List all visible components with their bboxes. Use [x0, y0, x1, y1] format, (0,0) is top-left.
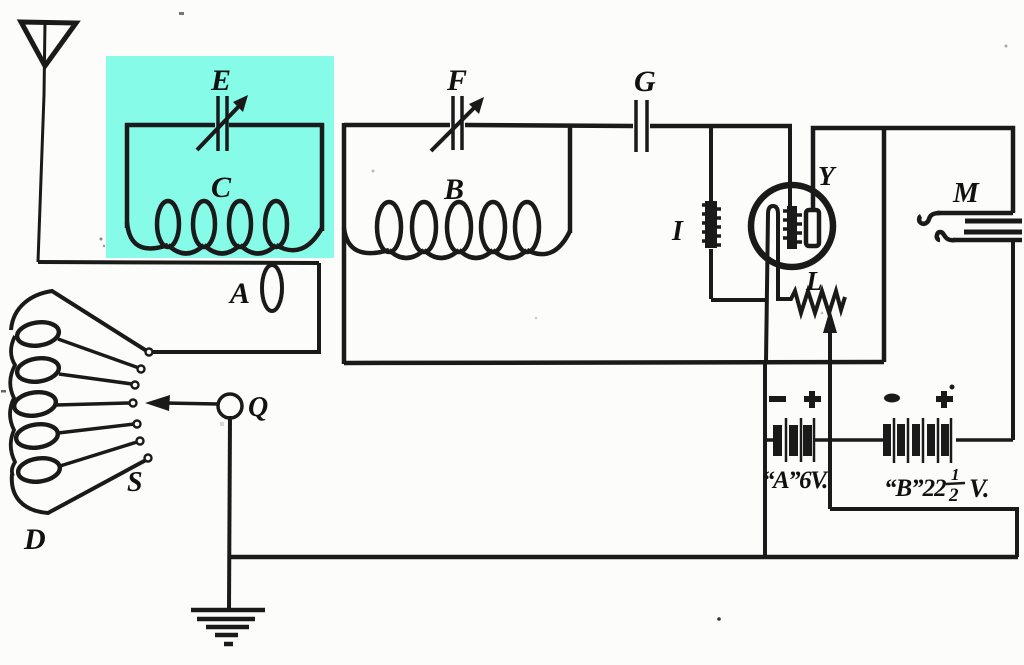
- tube grid: [783, 206, 802, 249]
- plate wire and top right rail: [813, 128, 1013, 213]
- coil D petal 2: [16, 356, 61, 385]
- resistor L: [778, 290, 845, 313]
- coil B scallops: [344, 228, 389, 253]
- wavetrap top wire left: [125, 123, 215, 128]
- svg-text:“A”6V.: “A”6V.: [762, 467, 829, 494]
- ground symbol: [191, 610, 265, 644]
- svg-text:F: F: [446, 64, 467, 97]
- capacitor G plates: [634, 100, 638, 152]
- tube plate: [806, 210, 819, 246]
- coil D petal 5: [17, 456, 62, 485]
- grid wire: [788, 126, 792, 206]
- switch arrowhead: [145, 395, 170, 411]
- coil D petal 3: [13, 390, 58, 419]
- coil D tap lead 3: [59, 374, 132, 384]
- battery B minus: [884, 394, 900, 403]
- rheostat slider arrow: [828, 330, 832, 363]
- capacitor E arrow: [197, 103, 242, 150]
- coupling coil A: [262, 265, 282, 311]
- grid leak branch vertical upper: [709, 126, 713, 201]
- coil I: [702, 201, 721, 248]
- wire Q to ground: [229, 416, 230, 609]
- B return wire: [830, 509, 1017, 557]
- svg-text:“B”22: “B”22: [884, 475, 946, 502]
- highlight box: [106, 56, 334, 258]
- svg-text:M: M: [952, 177, 980, 209]
- phones lower hook: [937, 232, 955, 240]
- wire down to coil D top tap: [153, 263, 319, 352]
- main top rail segment 1: [344, 123, 450, 128]
- coil D tap lead 2: [58, 339, 139, 368]
- tube filament: [766, 206, 778, 362]
- wavetrap top wire right: [229, 123, 324, 128]
- svg-text:S: S: [127, 467, 143, 498]
- wire plate-rail to cathode rail: [882, 128, 887, 362]
- antenna: [21, 22, 76, 66]
- phones right vertical: [1011, 240, 1015, 440]
- main top rail segment 2: [465, 125, 633, 126]
- wavetrap left vertical: [125, 123, 130, 228]
- capacitor F plates: [451, 96, 455, 150]
- svg-text:Q: Q: [248, 392, 268, 423]
- svg-text:D: D: [23, 523, 46, 556]
- svg-text:G: G: [634, 65, 656, 98]
- battery A minus: [769, 396, 786, 402]
- tank B right vertical: [568, 125, 573, 233]
- filament negative lead: [763, 363, 767, 557]
- svg-text:2: 2: [948, 485, 959, 506]
- svg-text:1: 1: [951, 465, 960, 484]
- battery A plus: [804, 391, 821, 408]
- coil D top loop: [11, 291, 150, 353]
- main top rail segment 3: [650, 124, 792, 129]
- tank B left vertical: [342, 123, 347, 364]
- battery A plates: [773, 418, 814, 462]
- grid leak branch vertical lower: [709, 249, 713, 299]
- coil B petals: [377, 202, 401, 252]
- ground bus wire: [228, 555, 1018, 560]
- phones bars: [965, 219, 1022, 224]
- svg-text:Y: Y: [818, 161, 837, 191]
- coil D tap lead 5: [58, 424, 134, 433]
- wavetrap right vertical: [320, 123, 325, 231]
- phones top lead: [937, 211, 1013, 216]
- cathode rail: [344, 362, 884, 363]
- coil D bottom loop: [12, 460, 146, 513]
- coil D tap lead 6: [60, 442, 137, 466]
- svg-text:V.: V.: [969, 474, 990, 503]
- capacitor E plates: [216, 96, 220, 151]
- battery A wires: [765, 438, 774, 442]
- coil D spine: [10, 336, 15, 476]
- battery B wires: [956, 438, 1013, 442]
- svg-text:E: E: [210, 64, 231, 97]
- battery B plus: [936, 391, 953, 408]
- antenna mast lead: [38, 21, 45, 262]
- svg-text:A: A: [228, 277, 250, 310]
- coil D petal 4: [15, 422, 60, 451]
- phones upper hook: [919, 213, 940, 224]
- coil C scallops: [127, 222, 168, 248]
- wire I to filament: [711, 298, 766, 302]
- tube Y envelope: [751, 185, 833, 267]
- battery B plates: [883, 418, 951, 463]
- svg-text:L: L: [805, 266, 823, 296]
- svg-text:C: C: [211, 171, 232, 204]
- coil C petals: [157, 201, 179, 247]
- phones lower lead: [953, 238, 1022, 243]
- switch knob Q: [218, 394, 242, 418]
- coil D tap lead 4: [56, 403, 130, 405]
- coil D petal 1: [16, 320, 61, 349]
- switch arm wire: [164, 403, 218, 404]
- slider to battery wire: [828, 363, 832, 509]
- tap circles: [130, 349, 153, 462]
- svg-text:I: I: [671, 216, 684, 247]
- capacitor F arrow: [431, 105, 477, 151]
- wire antenna to tuner: [38, 262, 319, 263]
